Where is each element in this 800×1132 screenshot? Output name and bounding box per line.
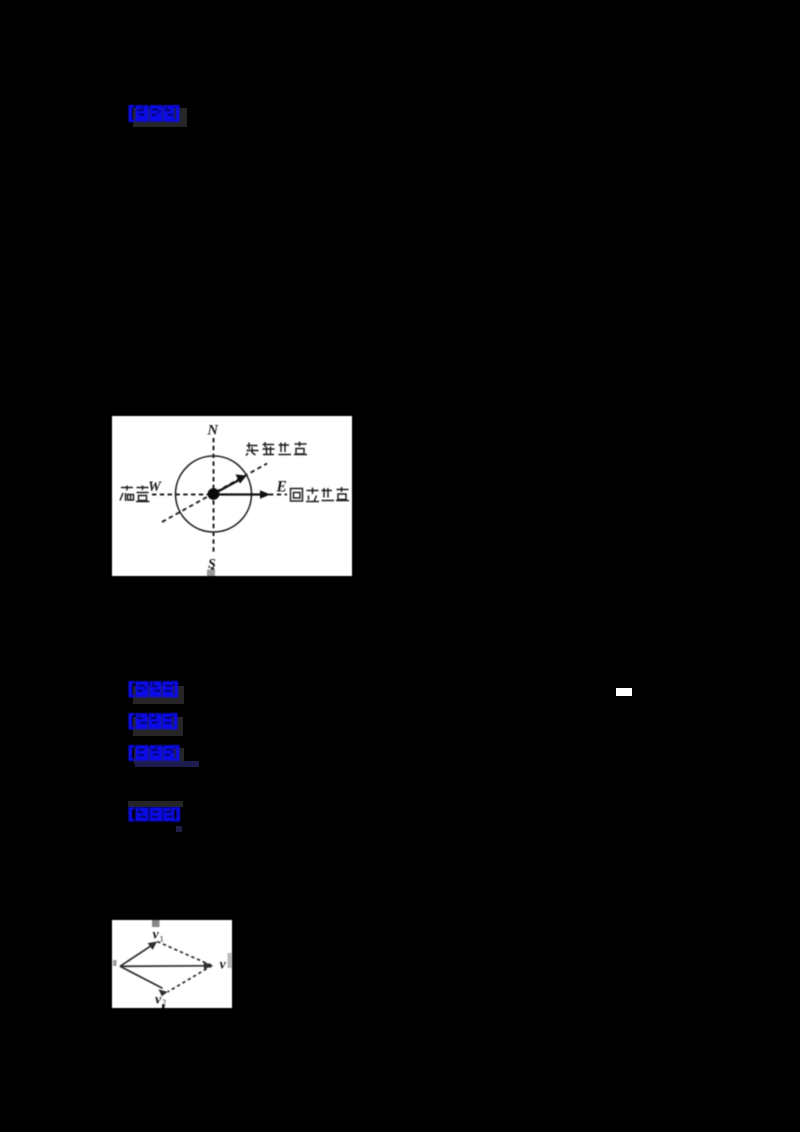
marker 【专题】 blue text: [128, 712, 178, 731]
marker 【考点】 shadow: [133, 686, 184, 704]
white equation fragment: [616, 688, 632, 696]
solid vector to v1: [120, 945, 152, 966]
svg-text:W: W: [148, 479, 162, 495]
svg-text:E: E: [276, 479, 287, 496]
solid vector to v (horizontal): [120, 965, 208, 968]
label 赤道 fake glyphs: [120, 486, 150, 502]
svg-text:v: v: [155, 993, 162, 1008]
marker 【分析】 blue text: [128, 744, 180, 762]
grey artifact below S: [207, 570, 215, 577]
center dot: [208, 488, 220, 500]
marker 【考点】 blue text: [128, 680, 179, 699]
svg-text:1: 1: [160, 934, 164, 944]
dashed line v1 to v: [157, 942, 212, 966]
svg-text:N: N: [207, 423, 219, 439]
circle (orbit): [176, 456, 252, 532]
svg-text:v: v: [153, 928, 160, 943]
diagram 1: satellite orbit figure (white image box): [112, 416, 352, 576]
marker 【专题】 shadow: [133, 717, 183, 736]
marker 【答案】 blue text: [128, 104, 180, 123]
grey artifact top: [152, 919, 160, 927]
marker 【解答】 blue text: [128, 806, 181, 823]
marker 【解答】 grey strip above: [128, 801, 183, 807]
dashed line v to v2: [168, 966, 212, 992]
vertical dashed axis N-S: [213, 438, 215, 555]
diagonal dashed transfer orbit line: [162, 464, 267, 523]
horizontal dashed equator line: [152, 494, 287, 496]
marker 【答案】 shadow: [133, 108, 187, 127]
label 转移轨道 fake glyphs: [246, 442, 307, 456]
marker 【分析】 shadow: [134, 748, 184, 764]
solid arrow along transfer orbit: [214, 480, 241, 495]
diagram 2: velocity vector figure (white image box): [112, 920, 232, 1008]
black dot below v2: [162, 1005, 165, 1009]
marker 【解答】 small mark below-right: [176, 826, 182, 832]
label 同步轨道 fake glyphs: [291, 487, 350, 502]
solid arrow east: [214, 493, 265, 495]
grey artifact right of v label: [228, 953, 232, 968]
grey artifact left edge: [113, 960, 117, 966]
marker 【分析】 underline strip: [135, 761, 199, 767]
solid vector to v2: [120, 966, 163, 988]
svg-text:v: v: [220, 958, 227, 973]
